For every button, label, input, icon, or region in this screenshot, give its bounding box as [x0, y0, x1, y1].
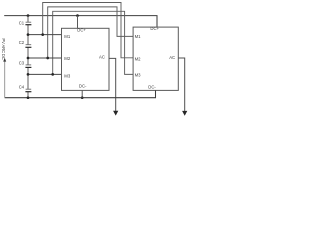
node: DC- drop on bus	[81, 96, 84, 99]
wire: n3 to left module M3	[28, 73, 62, 75]
svg-text:M3: M3	[64, 73, 71, 78]
svg-text:M2: M2	[64, 56, 71, 61]
capacitor C2	[26, 44, 32, 46]
capacitor C1	[26, 21, 32, 23]
node: n1 on riser	[41, 33, 44, 36]
wire: right module AC output	[178, 58, 184, 111]
node: chain bottom on bus	[27, 96, 30, 99]
svg-text:M2: M2	[135, 56, 142, 61]
node: n3 on riser	[51, 73, 54, 76]
svg-text:DC+: DC+	[150, 26, 159, 31]
node: junction DC+ rail / capacitor chain	[27, 14, 30, 17]
wire: n1 to left module M1	[28, 34, 62, 36]
node: n3 on chain	[27, 73, 30, 76]
node: junction DC+ rail / left module riser	[76, 14, 79, 17]
capacitor C3	[26, 64, 32, 66]
arrowhead: left AC output	[113, 111, 118, 116]
wire: DC- bottom bus with right module DC- drop	[5, 90, 156, 97]
wire: left module DC- drop to bus	[81, 90, 83, 97]
node: n2 on chain	[27, 57, 30, 60]
svg-text:C3: C3	[19, 61, 25, 66]
wire: DC+ top rail from PV to right module	[4, 16, 157, 28]
arrowhead: right AC output	[182, 111, 187, 116]
capacitor C4	[26, 88, 32, 90]
svg-text:M1: M1	[135, 34, 142, 39]
svg-text:M1: M1	[64, 34, 71, 39]
converter module U1 (left block)	[62, 28, 110, 90]
svg-text:DC-: DC-	[148, 84, 156, 89]
svg-text:AC: AC	[169, 55, 175, 60]
node: n1 on chain	[27, 33, 30, 36]
wire: net n1 (riser, top rail, drop to right module M2)	[43, 3, 134, 58]
wire: left module AC output	[109, 58, 116, 111]
node: n2 on riser	[46, 57, 49, 60]
svg-text:DC-: DC-	[79, 84, 87, 89]
wire: net n2 (riser, top rail, drop to right module M1)	[48, 7, 134, 58]
svg-text:C4: C4	[19, 85, 25, 90]
svg-text:AC: AC	[99, 55, 105, 60]
converter module U2 (right block)	[133, 27, 178, 90]
svg-text:DC+: DC+	[77, 28, 86, 33]
svg-text:M3: M3	[135, 73, 142, 78]
wire: capacitor chain segments	[27, 16, 29, 98]
svg-text:C2: C2	[19, 40, 25, 45]
wire: left module DC+ riser	[77, 16, 79, 29]
wire: PV voltage arrow stem	[4, 61, 6, 97]
svg-text:C1: C1	[19, 21, 25, 26]
wire: n2 to left module M2	[28, 57, 62, 59]
wire: net n3 (riser, top rail, drop to right module M3)	[53, 11, 134, 74]
svg-text:PV ARC DC: PV ARC DC	[1, 38, 6, 59]
arrowhead: PV voltage arrow (up)	[3, 58, 6, 62]
